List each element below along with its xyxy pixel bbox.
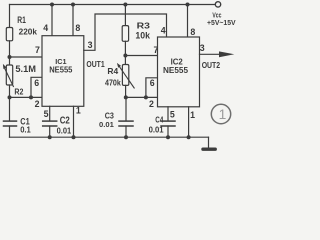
svg-text:R1: R1 xyxy=(17,14,26,25)
wire R3 top xyxy=(124,5,126,26)
wire IC1 pin 3 OUT1 to IC2 pin 4 xyxy=(84,14,167,50)
wire top supply rail xyxy=(10,4,215,6)
wire IC2 pin 2 row xyxy=(126,96,158,98)
node pin6 stub junction IC2 xyxy=(144,95,148,99)
svg-text:0.01: 0.01 xyxy=(149,126,165,135)
svg-text:4: 4 xyxy=(43,23,48,33)
svg-text:8: 8 xyxy=(75,23,80,33)
svg-text:C4: C4 xyxy=(155,116,163,125)
svg-text:220k: 220k xyxy=(19,27,38,36)
svg-text:NE555: NE555 xyxy=(163,65,188,75)
svg-text:1: 1 xyxy=(219,107,227,122)
wire left rail top segment xyxy=(9,5,11,28)
svg-text:R4: R4 xyxy=(107,67,118,76)
wire IC1 pin 2 row xyxy=(10,96,43,98)
wire IC2 pin 7 xyxy=(125,55,157,57)
wire IC1 pin 8 xyxy=(72,5,74,36)
wire R4 junction down to C3 xyxy=(125,97,127,120)
svg-text:0.01: 0.01 xyxy=(99,120,115,129)
svg-text:5: 5 xyxy=(170,110,175,120)
svg-text:3: 3 xyxy=(200,43,205,53)
wire IC1 pin 7 xyxy=(10,56,43,58)
svg-text:OUT1: OUT1 xyxy=(86,59,105,69)
svg-text:0.1: 0.1 xyxy=(20,125,31,135)
svg-text:OUT2: OUT2 xyxy=(202,61,221,70)
svg-text:R3: R3 xyxy=(137,22,151,31)
node C2 ground xyxy=(48,135,52,139)
svg-text:4: 4 xyxy=(161,25,166,35)
node top rail IC2 pin8 xyxy=(186,3,190,7)
svg-text:R2: R2 xyxy=(14,87,23,97)
timer IC1 NE555 box xyxy=(42,36,84,107)
wire IC1 pin 4 xyxy=(51,5,53,36)
resistor R3 xyxy=(122,26,128,42)
arrowhead OUT2 xyxy=(219,51,234,57)
potentiometer R2 xyxy=(3,57,14,97)
node R4 bottom junction xyxy=(124,95,128,99)
figure number circled 1 xyxy=(211,104,230,123)
wire R3 bottom to node xyxy=(124,41,126,55)
svg-text:10k: 10k xyxy=(135,31,151,41)
wire IC2 pin 1 to ground rail xyxy=(188,107,190,137)
node IC2 pin1 ground xyxy=(187,135,191,139)
svg-text:5: 5 xyxy=(44,109,49,119)
wire IC1 pin 5 to C2 xyxy=(49,106,51,120)
svg-text:8: 8 xyxy=(190,27,195,37)
wire IC1 pin 6 stub xyxy=(31,77,42,97)
wire IC2 pin 6 stub xyxy=(146,78,158,98)
svg-text:5.1M: 5.1M xyxy=(15,64,36,74)
node junction R3 R4 pin7 xyxy=(123,54,127,58)
svg-text:470k: 470k xyxy=(105,78,121,87)
wire R1 bottom to node xyxy=(9,41,11,57)
node junction R2 bottom xyxy=(8,95,12,99)
node top rail IC1 pin8 xyxy=(71,3,75,7)
potentiometer R4 xyxy=(117,56,134,98)
node C4 ground xyxy=(166,135,170,139)
capacitor C1 xyxy=(4,121,17,126)
Vcc terminal xyxy=(215,2,220,7)
wire ground rail drop xyxy=(208,137,210,147)
svg-text:+5V~15V: +5V~15V xyxy=(207,18,236,27)
svg-text:6: 6 xyxy=(150,78,155,88)
wire IC2 pin 3 OUT2 xyxy=(200,53,221,55)
svg-text:6: 6 xyxy=(34,78,39,88)
svg-text:NE555: NE555 xyxy=(49,65,72,75)
wire left rail to C1 xyxy=(9,97,11,120)
node junction R1 R2 pin7 xyxy=(8,55,12,59)
node top rail IC1 pin4 xyxy=(50,3,54,7)
capacitor C3 xyxy=(119,121,133,126)
node pin6 stub junction IC1 xyxy=(29,95,33,99)
wire IC1 pin 1 to ground rail xyxy=(73,106,75,137)
svg-text:2: 2 xyxy=(35,99,40,109)
node IC1 pin1 ground xyxy=(72,135,76,139)
svg-text:1: 1 xyxy=(76,105,81,115)
wire IC2 pin 5 to C4 xyxy=(167,107,169,121)
svg-text:7: 7 xyxy=(35,45,40,55)
svg-text:2: 2 xyxy=(149,99,154,109)
capacitor C2 xyxy=(43,121,57,126)
wire bottom ground rail xyxy=(10,136,209,138)
resistor R1 xyxy=(6,28,12,41)
wire IC2 pin 8 xyxy=(187,5,189,38)
svg-text:3: 3 xyxy=(88,40,93,50)
node C3 ground xyxy=(124,135,128,139)
node top rail R3 xyxy=(123,3,127,7)
svg-text:C3: C3 xyxy=(105,111,114,121)
capacitor C4 xyxy=(161,121,175,126)
svg-text:0.01: 0.01 xyxy=(57,126,72,136)
svg-text:1: 1 xyxy=(190,110,195,120)
ground xyxy=(201,148,217,151)
timer IC2 NE555 box xyxy=(158,37,200,107)
